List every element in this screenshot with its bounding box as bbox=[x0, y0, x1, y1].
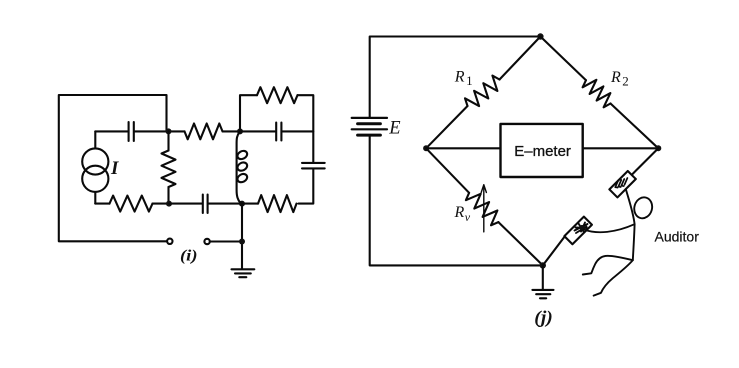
auditor head bbox=[632, 195, 655, 220]
right node bbox=[655, 145, 661, 151]
left node bbox=[423, 145, 429, 151]
wire left node to E-meter bbox=[426, 147, 500, 149]
resistor Rv variable bbox=[466, 193, 499, 226]
resistor top loop bbox=[257, 87, 298, 103]
wire top node to R1 bbox=[500, 37, 541, 80]
inductor L1 (B to D) bbox=[236, 131, 249, 203]
wire left node to Rv bbox=[426, 148, 469, 193]
svg-text:I: I bbox=[110, 158, 119, 179]
ground (j) bbox=[532, 290, 553, 298]
hand scribble on can 2 bbox=[575, 223, 588, 234]
svg-text:(i): (i) bbox=[180, 247, 198, 264]
wire top left (battery top to top node) bbox=[370, 37, 541, 118]
wire E-meter to right node bbox=[583, 147, 658, 149]
cable arm curve to auditor bbox=[584, 224, 635, 232]
wire bottom node to ground bbox=[542, 265, 544, 289]
resistor top middle (A to B) bbox=[185, 124, 223, 140]
wire right node to upper electrode bbox=[631, 148, 658, 175]
auditor torso bbox=[633, 224, 635, 260]
resistor R2 bbox=[583, 80, 611, 108]
node D bbox=[239, 201, 245, 207]
svg-text:R1: R1 bbox=[454, 68, 473, 88]
capacitor C1 top-left bbox=[129, 122, 185, 141]
electrode can 2 (lower) bbox=[564, 217, 592, 245]
svg-text:Auditor: Auditor bbox=[655, 228, 700, 244]
capacitor C2 right horizontal bbox=[276, 123, 313, 141]
auditor arm to can 1 bbox=[626, 189, 635, 224]
wire battery bottom to bottom node bbox=[370, 136, 543, 266]
node C bbox=[166, 201, 172, 207]
wire top rail left segment (current source top to capacitor) bbox=[95, 130, 127, 132]
auditor near leg bbox=[583, 256, 633, 275]
auditor far leg bbox=[594, 260, 633, 295]
wire A-resistor to node B bbox=[223, 130, 241, 132]
electrode can 1 (upper) bbox=[609, 171, 635, 197]
E-meter box U1 bbox=[501, 124, 583, 177]
node A bbox=[166, 128, 172, 134]
svg-text:Rv: Rv bbox=[454, 204, 471, 224]
wire bottom node to lower electrode bbox=[543, 237, 565, 266]
wire node B to capacitor right bbox=[240, 130, 275, 132]
top node bbox=[537, 33, 543, 39]
terminal 1 open circle bbox=[167, 239, 172, 244]
wire top node to R2 bbox=[540, 37, 586, 81]
resistor bottom left bbox=[95, 196, 169, 212]
wire terminal 2 to junction bbox=[210, 240, 242, 242]
junction node bbox=[239, 239, 245, 245]
wire Rv to bottom node bbox=[498, 222, 542, 265]
svg-text:R2: R2 bbox=[610, 69, 629, 89]
wire D down to ground junction bbox=[241, 204, 243, 269]
resistor bottom right (D to corner) bbox=[242, 195, 297, 212]
capacitor C4 bottom bbox=[169, 195, 242, 214]
svg-text:(j): (j) bbox=[534, 307, 553, 327]
resistor vertical (A to C) bbox=[162, 131, 176, 203]
wire R1 to left node bbox=[426, 106, 467, 148]
hatch marks on can 1 bbox=[615, 178, 627, 188]
svg-text:E: E bbox=[388, 119, 400, 139]
ground (i) bbox=[232, 269, 255, 277]
wire outer loop from node A up, left, down, to terminal 1 bbox=[59, 95, 167, 241]
wire R2 to right node bbox=[611, 104, 659, 149]
wire top loop from B bbox=[240, 95, 257, 131]
arrow through Rv bbox=[481, 185, 486, 232]
wire top loop right corner down bbox=[298, 95, 314, 162]
wire right vertical lower bbox=[299, 169, 314, 203]
terminal 2 open circle bbox=[204, 239, 209, 244]
battery E bbox=[352, 118, 387, 135]
svg-text:E–meter: E–meter bbox=[514, 143, 571, 160]
current source I bbox=[82, 131, 108, 203]
resistor R1 bbox=[465, 76, 500, 107]
bottom node bbox=[540, 262, 546, 268]
node B bbox=[237, 128, 243, 134]
capacitor C3 right vertical bbox=[302, 163, 325, 169]
